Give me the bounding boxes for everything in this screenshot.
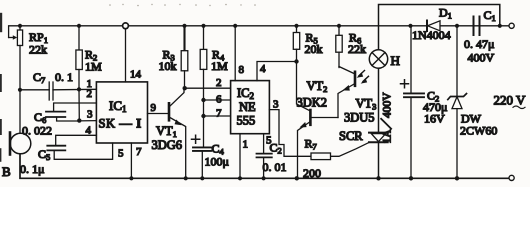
svg-text:1N4004: 1N4004 — [412, 28, 451, 42]
svg-text:SK — I: SK — I — [99, 117, 142, 131]
junction dot pin8 rail — [233, 24, 237, 28]
junction dot VT2 emitter ground — [295, 176, 299, 180]
node A junction dot top rail at RP1 — [18, 24, 22, 28]
wire jumper lamp to mains node — [379, 5, 500, 50]
svg-text:400V: 400V — [468, 51, 495, 65]
svg-text:3: 3 — [273, 99, 279, 111]
capacitor C7 — [20, 70, 96, 100]
terminal bottom right — [509, 175, 514, 180]
junction dot R3 pin2 node — [183, 86, 187, 90]
svg-text:VT3: VT3 — [356, 97, 377, 112]
svg-text:C1: C1 — [484, 8, 496, 23]
junction dot R6 top rail — [337, 24, 341, 28]
svg-text:VT1: VT1 — [156, 124, 177, 139]
svg-text:14: 14 — [130, 69, 142, 81]
wire IC1 pin 9 to VT1 base — [148, 113, 170, 115]
junction dot R4 top rail — [201, 24, 205, 28]
junction dot R4 pin6 — [201, 98, 205, 102]
capacitor C2 470u electrolytic — [401, 26, 448, 179]
svg-text:0. 01: 0. 01 — [263, 160, 287, 174]
svg-text:1M: 1M — [85, 60, 102, 74]
junction dot VT1 emitter ground — [184, 176, 188, 180]
svg-text:220 V: 220 V — [494, 93, 527, 108]
svg-text:100μ: 100μ — [205, 155, 229, 169]
svg-text:555: 555 — [237, 114, 256, 128]
timer IC2 NE555 box — [231, 81, 270, 134]
svg-text:7: 7 — [216, 108, 222, 120]
wire top +V rail — [9, 26, 509, 38]
wire to IC2 pin 7 — [204, 115, 231, 117]
ring junction top rail pin 14 — [123, 23, 129, 29]
svg-text:0. 47μ: 0. 47μ — [464, 37, 494, 51]
wire IC1 pin 3 — [79, 120, 96, 122]
svg-text:7: 7 — [136, 146, 142, 158]
wire IC2 pin 8 to rail — [234, 26, 236, 81]
wire pin4 node down to VT2 collector — [297, 62, 311, 112]
svg-text:8: 8 — [239, 64, 245, 76]
scan edge artifacts — [0, 14, 2, 161]
junction dot pin3 wire — [77, 118, 81, 122]
svg-text:0. 1: 0. 1 — [55, 70, 73, 84]
svg-text:C5: C5 — [38, 147, 50, 162]
resistor R7 — [269, 110, 330, 180]
wire IC2 pin 4 to R5 — [257, 62, 297, 81]
junction dot R3 top rail — [182, 24, 186, 28]
junction dot C4 ground — [200, 176, 204, 180]
svg-text:2: 2 — [87, 88, 93, 100]
wire IC2 pin 1 to ground — [239, 134, 241, 179]
svg-text:22k: 22k — [29, 43, 47, 57]
resistor R3 — [159, 26, 188, 88]
potentiometer RP1 — [9, 26, 48, 57]
wire IC1 pin 14 — [125, 29, 127, 82]
svg-text:16V: 16V — [424, 112, 445, 126]
diode D1 1N4004 — [412, 6, 452, 43]
junction dot pin1 ground — [238, 176, 242, 180]
resistor R2 — [76, 26, 102, 90]
junction dot SCR cathode ground — [376, 176, 380, 180]
svg-text:1M: 1M — [211, 59, 228, 73]
capacitor C4 100u — [192, 135, 229, 178]
svg-text:2CW60: 2CW60 — [460, 124, 497, 138]
junction dot R5 pin4 node — [294, 59, 298, 63]
capacitor C5 — [20, 143, 113, 176]
node junction dot C7 wire — [18, 88, 22, 92]
svg-text:R7: R7 — [305, 137, 317, 152]
svg-text:10k: 10k — [159, 59, 177, 73]
svg-text:C7: C7 — [33, 70, 45, 85]
junction dot R5 top rail — [294, 24, 298, 28]
lamp H — [369, 50, 400, 68]
scan speck artifacts top — [109, 4, 256, 7]
junction dot R4 pin7 — [201, 114, 205, 118]
wire IC1 pin 4 — [56, 135, 97, 145]
svg-text:3: 3 — [87, 109, 93, 121]
svg-text:22k: 22k — [348, 42, 366, 56]
node 220V mains label — [494, 93, 527, 109]
svg-text:D1: D1 — [439, 6, 452, 21]
capacitor C1 0.47u — [464, 8, 496, 65]
svg-text:H: H — [391, 53, 400, 68]
junction dot D1 cathode rail — [408, 24, 412, 28]
svg-text:3DK2: 3DK2 — [297, 96, 328, 110]
capacitor C6 — [22, 110, 79, 138]
wire VT1 collector node to IC2 pin 2 — [185, 87, 231, 89]
svg-text:0. 1μ: 0. 1μ — [20, 162, 44, 176]
svg-text:5: 5 — [118, 148, 124, 160]
junction dot C2 ground — [262, 176, 266, 180]
svg-text:20k: 20k — [305, 42, 323, 56]
junction dot C2 470u ground — [409, 176, 413, 180]
svg-text:4: 4 — [260, 63, 266, 75]
junction dot DW ground — [455, 176, 459, 180]
svg-text:1: 1 — [243, 139, 249, 151]
terminal top right — [509, 23, 514, 28]
svg-text:0. 022: 0. 022 — [22, 124, 52, 138]
transistor VT1 3DG6 — [152, 88, 186, 178]
zener diode DW 2CW60 — [448, 26, 498, 179]
junction dot D1 anode node — [455, 24, 459, 28]
wire IC1 pin 7 to ground — [130, 143, 132, 178]
svg-text:3DU5: 3DU5 — [344, 111, 375, 125]
wire IC1 pin 2 — [54, 103, 97, 111]
svg-text:C2: C2 — [270, 141, 282, 156]
wire RP1 bottom to mic node — [19, 46, 21, 134]
transistor VT2 3DK2 — [297, 79, 339, 178]
capacitor C2 0.01 — [257, 134, 287, 179]
junction dot pin7 ground — [129, 176, 133, 180]
svg-text:B: B — [2, 164, 11, 179]
svg-text:SCR: SCR — [339, 129, 363, 143]
svg-text:VT2: VT2 — [307, 79, 328, 94]
wire to IC2 pin 6 — [204, 99, 231, 101]
op-amp IC1 SK-I box — [96, 82, 147, 143]
microphone B — [2, 133, 31, 180]
svg-text:9: 9 — [151, 102, 157, 114]
svg-text:1A／400V: 1A／400V — [381, 92, 394, 144]
thyristor SCR — [331, 129, 388, 178]
resistor R6 — [336, 26, 366, 68]
wire lamp to SCR — [378, 68, 380, 132]
junction dot R2 to pin1 wire — [77, 87, 81, 91]
resistor R4 — [200, 26, 228, 147]
junction dot C1 right mains node — [498, 24, 502, 28]
svg-text:6: 6 — [216, 94, 222, 106]
svg-text:200: 200 — [303, 166, 321, 180]
junction dot R2 top rail — [77, 24, 81, 28]
svg-text:2: 2 — [216, 77, 222, 89]
wire R2 node down to pin3 wire — [78, 89, 80, 120]
wire bottom ground rail — [20, 155, 509, 179]
svg-text:NE: NE — [239, 100, 256, 114]
phototransistor VT3 3DU5 — [338, 67, 376, 125]
resistor R5 — [293, 26, 322, 62]
svg-text:3DG6: 3DG6 — [152, 138, 183, 152]
